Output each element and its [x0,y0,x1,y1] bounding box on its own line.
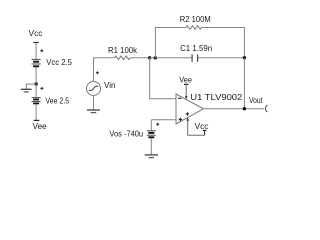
svg-text:Vin: Vin [104,80,116,90]
op-amp U1 TLV9002 [176,94,204,124]
wire R1 to inverting node [130,57,150,59]
ground left rail [21,89,32,92]
node mid-rail junction [34,82,37,85]
wire battery VOS to ground [150,138,152,154]
wire Vcc terminal to battery VCC [35,43,37,60]
node feedback top junction [154,56,157,59]
ground under Vin [87,110,100,113]
battery VEE Vee 2.5 [32,87,44,104]
wire plus input down to battery VOS [150,120,152,131]
svg-text:Vee 2.5: Vee 2.5 [45,95,69,105]
svg-text:R1 100k: R1 100k [108,45,138,55]
battery VOS Vos -740u [147,123,159,138]
wire Vin bottom to ground [93,96,95,110]
wire battery VEE to Vee terminal [35,104,37,120]
wire feedback junction to C1 [155,57,192,59]
wire node to feedback junction [150,57,156,59]
capacitor C1 [192,54,198,62]
svg-text:C1 1.59n: C1 1.59n [180,43,212,53]
battery VCC Vcc 2.5 [32,49,44,66]
wire R2 to right riser [202,28,245,58]
svg-text:Vcc 2.5: Vcc 2.5 [46,57,72,67]
svg-text:U1 TLV9002: U1 TLV9002 [190,92,242,102]
wire feedback left riser to R2 [155,28,186,58]
wire op-amp plus input [151,119,176,121]
source V1 Vin sine [87,71,101,95]
node Vcc terminal label [29,28,44,43]
node Vcc power pin of op-amp [186,118,209,136]
wire right riser to output node [243,58,245,109]
node output junction [243,107,246,110]
resistor R1 [115,56,131,60]
wire inverting node down to op-amp minus input [150,58,176,99]
wire junction to battery VEE [35,84,37,97]
svg-text:Vcc: Vcc [195,121,210,131]
resistor R2 [186,26,202,30]
svg-text:Vee: Vee [33,121,47,131]
wire C1 to right node [198,57,245,59]
node Vee terminal label [33,120,47,131]
svg-text:Vout: Vout [249,95,263,105]
node feedback right junction [243,56,246,59]
wire op-amp output [204,108,264,110]
svg-text:Vcc: Vcc [29,28,44,38]
node Vee power pin of op-amp [179,75,192,100]
svg-text:Vos -740u: Vos -740u [109,129,143,139]
svg-text:R2 100M: R2 100M [180,14,211,24]
ground under VOS [145,155,158,158]
wire junction to ground stub [26,84,36,89]
node inverting input junction [148,56,151,59]
wire Vin top to main node line [94,58,115,82]
svg-text:Vee: Vee [179,75,192,85]
node output pin terminal [265,105,267,112]
wire battery VCC to mid junction [35,67,37,84]
